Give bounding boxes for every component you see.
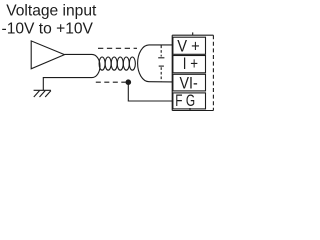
open jumper upper bar xyxy=(158,46,164,58)
svg-text:V +: V + xyxy=(177,36,200,55)
terminal block bottom tick xyxy=(189,108,191,111)
terminal block top tick xyxy=(192,32,194,35)
shield dashed line top xyxy=(98,47,137,49)
junction dot (shield) xyxy=(126,79,132,85)
label "Voltage input -10V to +10V" xyxy=(2,2,98,37)
terminal I+ xyxy=(173,54,206,73)
twisted pair coil xyxy=(99,57,135,70)
open jumper lower bar xyxy=(159,66,164,81)
shield dashed line bottom xyxy=(96,81,126,83)
terminal F G xyxy=(173,91,206,110)
wire: triangle tip to cable top xyxy=(65,53,93,55)
terminal block outer body xyxy=(172,35,213,110)
source triangle (voltage input buffer) xyxy=(31,41,64,69)
wire: cable bottom line to VI- terminal xyxy=(149,81,173,83)
wire: shield dot to F G terminal xyxy=(128,84,173,101)
terminal V+ xyxy=(173,36,206,55)
wire: cable pair left loop end xyxy=(92,54,100,77)
terminal VI- xyxy=(173,73,206,92)
svg-text:-10V to +10V: -10V to +10V xyxy=(2,20,94,37)
wire: cable top line to V+ terminal xyxy=(149,44,173,46)
cable end bell xyxy=(138,45,149,82)
svg-text:I +: I + xyxy=(183,54,198,73)
svg-text:F G: F G xyxy=(175,91,195,110)
svg-text:Voltage input: Voltage input xyxy=(6,2,97,19)
svg-text:VI-: VI- xyxy=(180,73,198,92)
wire: cable bottom line to ground stem corner xyxy=(43,78,92,91)
ground xyxy=(34,90,51,97)
